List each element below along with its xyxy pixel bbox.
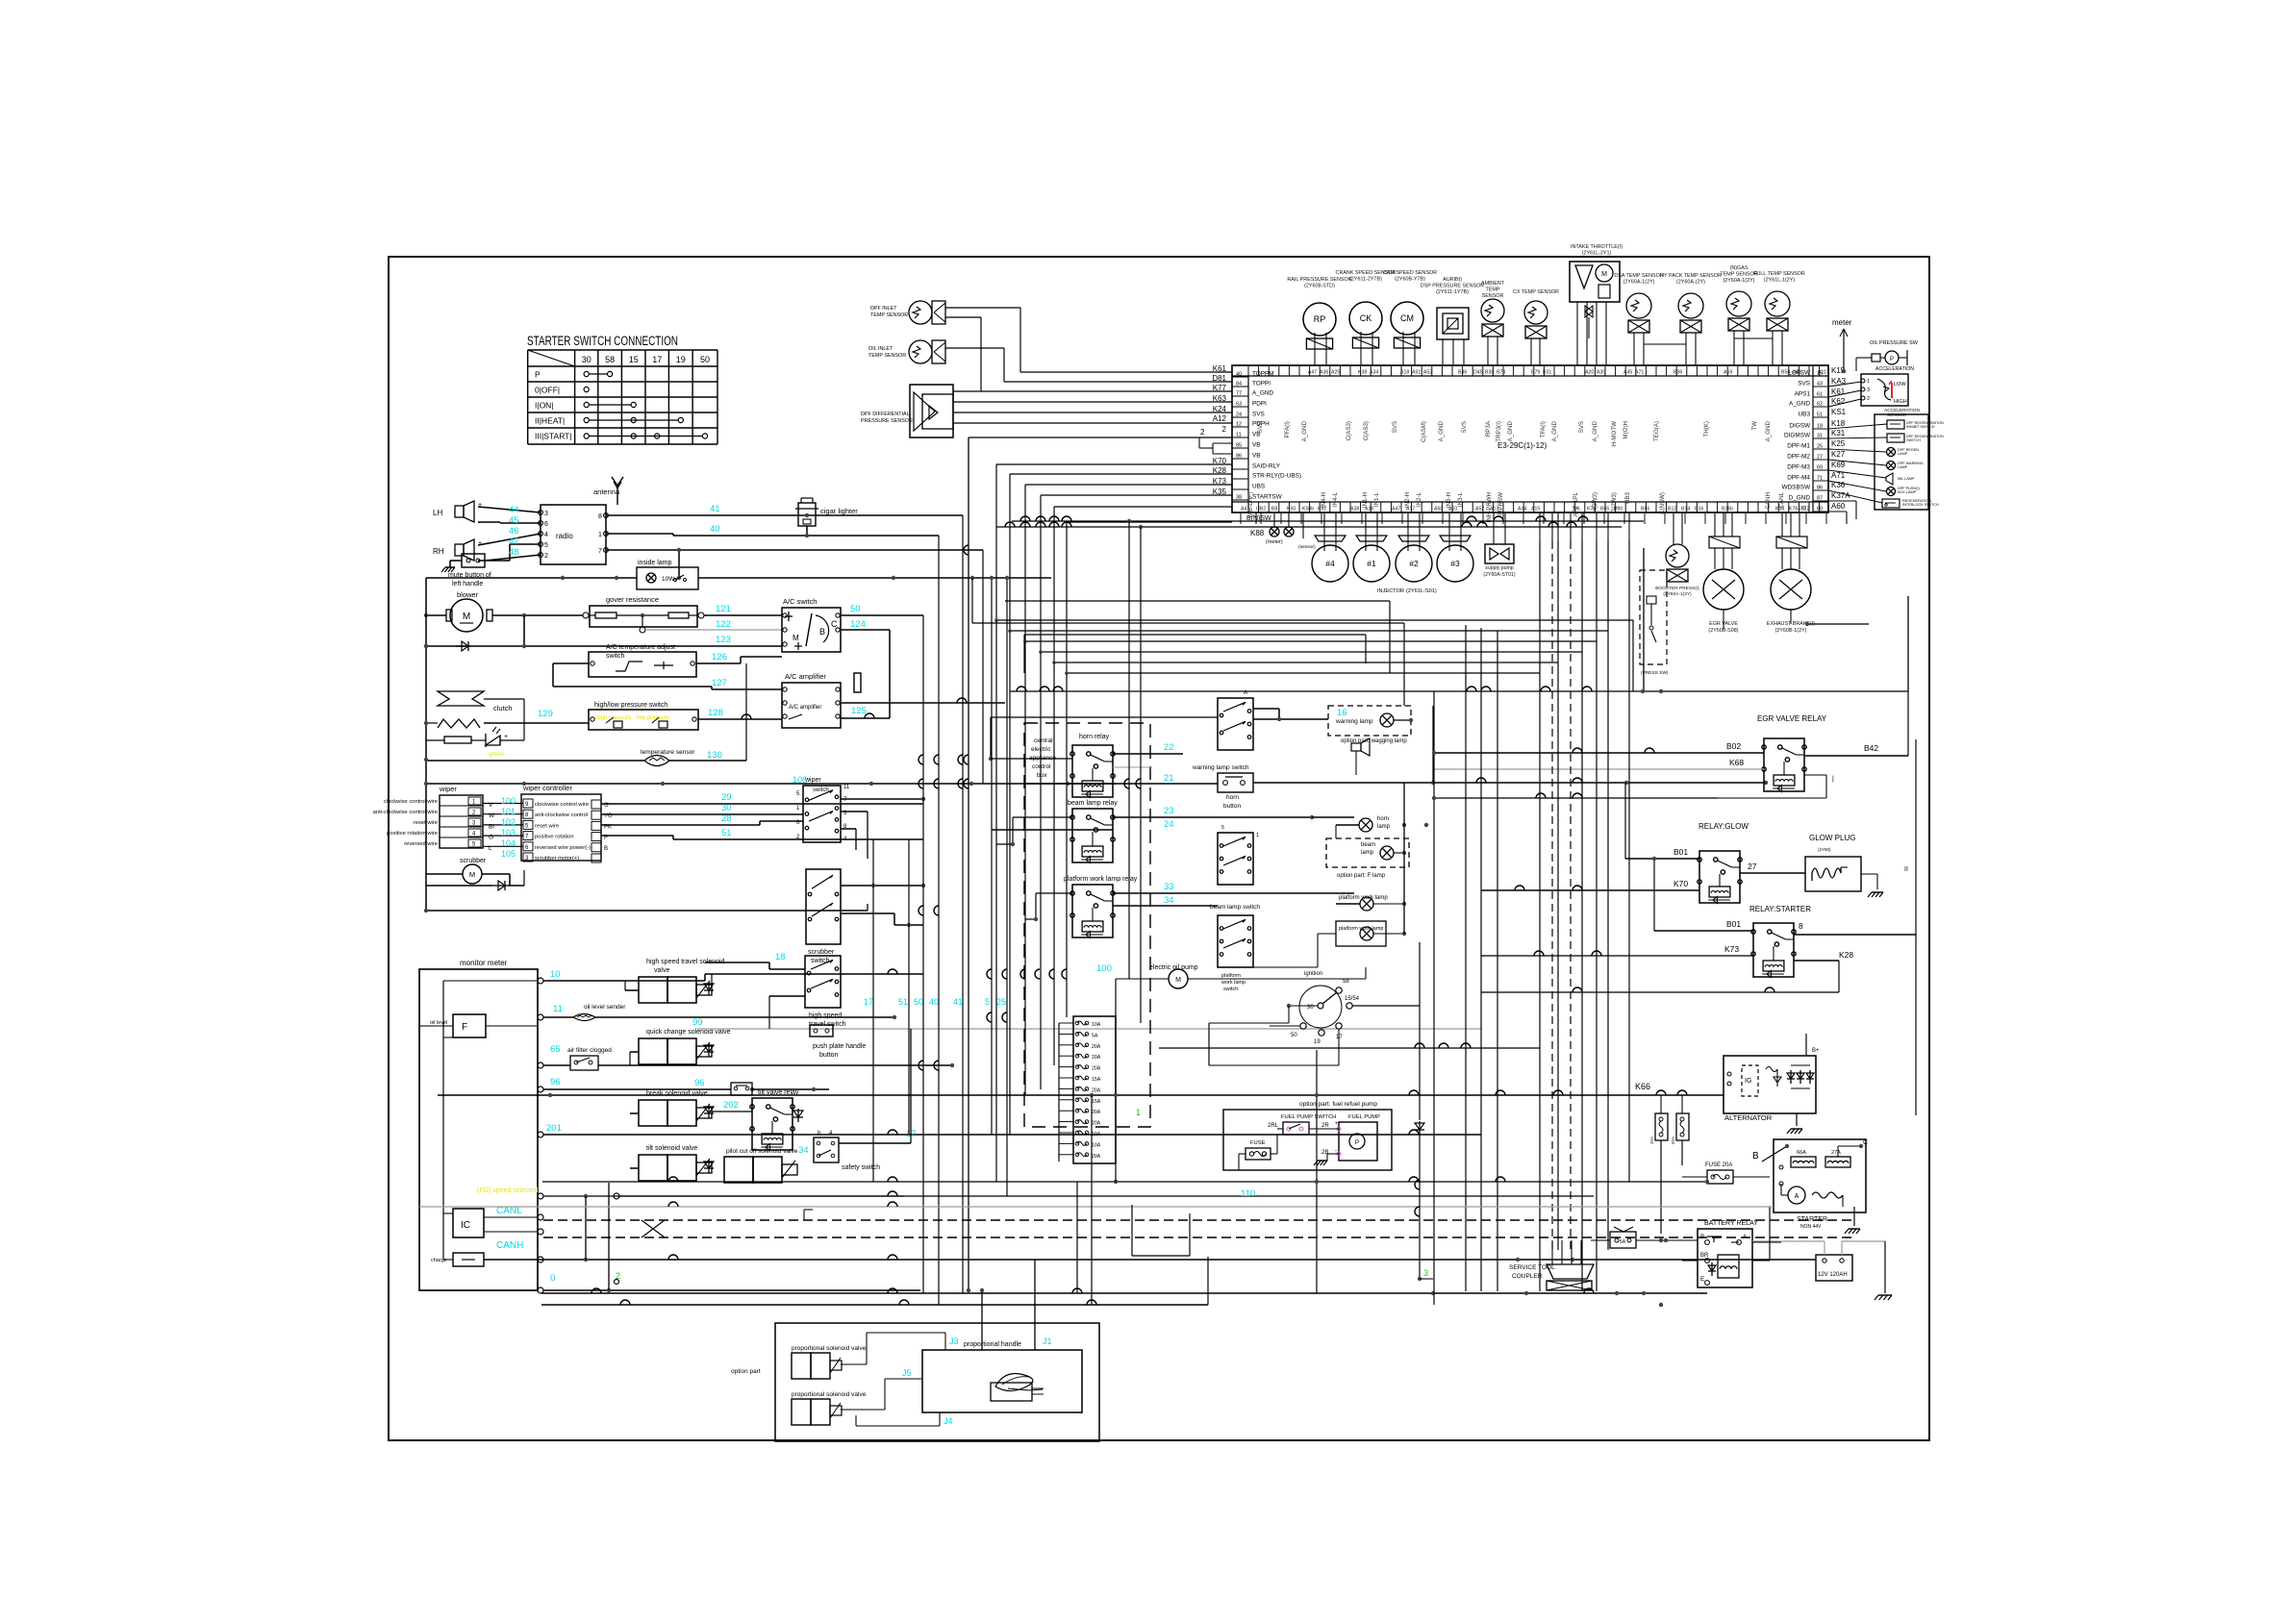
option part inner wires <box>841 1260 1052 1426</box>
wire y947 <box>424 904 868 912</box>
monitor meter box <box>419 959 538 1290</box>
FUEL temp sensor <box>1753 271 1805 365</box>
svg-text:B16b: B16b <box>1722 507 1733 512</box>
svg-text:2: 2 <box>616 1271 620 1281</box>
svg-text:CX TEMP SENSOR: CX TEMP SENSOR <box>1513 289 1559 295</box>
label 0 <box>550 1273 555 1284</box>
ECU left pin labels <box>1212 364 1301 512</box>
svg-text:PFA(I): PFA(I) <box>1284 421 1291 438</box>
svg-text:27: 27 <box>1817 455 1823 461</box>
svg-text:63: 63 <box>1236 402 1242 408</box>
radio pins <box>539 511 609 560</box>
left-center vertical bundle <box>864 515 1009 1305</box>
svg-text:A/C switch: A/C switch <box>783 597 817 606</box>
wire K70 glow <box>1481 879 1699 890</box>
wires K37A A60 <box>1828 501 1856 524</box>
svg-text:box: box <box>1037 772 1047 779</box>
injector #2 <box>1396 512 1432 582</box>
svg-text:B: B <box>1752 1151 1759 1162</box>
svg-text:high/low pressure switch: high/low pressure switch <box>594 702 667 709</box>
LED + resistor <box>426 699 524 758</box>
wire 24 <box>992 819 1218 833</box>
svg-text:K18: K18 <box>1831 419 1846 428</box>
wire canl <box>543 1191 1594 1199</box>
svg-text:A_GND: A_GND <box>1789 401 1810 408</box>
svg-text:50: 50 <box>914 997 923 1007</box>
svg-text:oil level sender: oil level sender <box>584 1004 626 1011</box>
svg-text:option part: fuel refuel pump: option part: fuel refuel pump <box>1299 1101 1377 1108</box>
svg-text:(meter): (meter) <box>1266 539 1283 545</box>
svg-text:M: M <box>469 870 475 879</box>
svg-text:4: 4 <box>544 532 548 538</box>
svg-text:switch: switch <box>606 653 625 660</box>
svg-text:B: B <box>819 627 825 637</box>
svg-text:25: 25 <box>996 997 1006 1007</box>
svg-text:SVS: SVS <box>1392 421 1398 433</box>
CANH label <box>496 1240 523 1251</box>
svg-text:clockwise control wire: clockwise control wire <box>535 802 589 808</box>
bus y815 <box>424 782 1116 786</box>
svg-text:5: 5 <box>985 997 990 1007</box>
solenoid valve: quick change solenoid valve <box>639 1029 731 1064</box>
central electric appliance control box <box>1024 723 1150 1127</box>
svg-text:B01: B01 <box>1726 919 1741 929</box>
wire K66 <box>438 1082 1724 1097</box>
svg-text:lamp: lamp <box>1361 850 1374 856</box>
svg-text:124: 124 <box>850 619 866 630</box>
svg-text:RELAY:GLOW: RELAY:GLOW <box>1699 822 1749 831</box>
svg-text:10A: 10A <box>1092 1022 1101 1028</box>
svg-text:clockwise control wire: clockwise control wire <box>384 799 438 805</box>
svg-text:E: E <box>1700 1276 1705 1283</box>
cross wires y548 <box>996 522 1622 529</box>
svg-text:A_GND: A_GND <box>1252 390 1273 397</box>
svg-text:wiper: wiper <box>439 785 457 793</box>
svg-text:20A: 20A <box>1092 1055 1101 1061</box>
A/C switch <box>782 597 841 652</box>
wire 2 left <box>967 428 1232 1292</box>
svg-text:B12: B12 <box>1668 507 1676 512</box>
svg-text:FUEL PUMP: FUEL PUMP <box>1348 1114 1380 1120</box>
svg-text:H-MOTW: H-MOTW <box>1611 421 1618 446</box>
wire 129 <box>484 709 589 723</box>
svg-text:25: 25 <box>1817 444 1823 450</box>
svg-text:F: F <box>462 1022 467 1033</box>
svg-text:B36: B36 <box>1673 370 1682 376</box>
horn relay <box>1070 734 1115 798</box>
electric oil pump <box>1116 964 1366 988</box>
svg-text:34: 34 <box>798 1145 809 1156</box>
svg-text:DSP PRESSURE SENSOR: DSP PRESSURE SENSOR <box>1421 283 1485 288</box>
svg-text:2: 2 <box>1222 425 1227 434</box>
svg-text:(2Y61L-S01): (2Y61L-S01) <box>1406 588 1437 594</box>
svg-text:A_GND: A_GND <box>1551 420 1558 441</box>
svg-text:(2Y611-1Y7B): (2Y611-1Y7B) <box>1436 289 1469 295</box>
svg-text:K37A: K37A <box>1831 491 1850 500</box>
svg-text:(sensor): (sensor) <box>1298 544 1316 550</box>
svg-text:123: 123 <box>716 635 731 645</box>
svg-text:65: 65 <box>550 1044 561 1055</box>
wire wiper switch right <box>841 797 925 859</box>
svg-text:low pressure: low pressure <box>637 715 670 721</box>
svg-text:beam: beam <box>1361 842 1375 848</box>
svg-text:ALTERNATOR: ALTERNATOR <box>1724 1113 1773 1122</box>
beam lamp relay <box>1068 800 1118 863</box>
svg-text:(FG) speed selected: (FG) speed selected <box>477 1187 539 1194</box>
monitor internal wires <box>443 981 538 1260</box>
meter connector <box>1828 318 1852 371</box>
svg-text:30: 30 <box>721 803 732 813</box>
svg-text:A38: A38 <box>1350 507 1359 512</box>
svg-text:option part: F lamp: option part: F lamp <box>1337 873 1386 879</box>
fuel pump fuse <box>1239 1129 1283 1170</box>
speaker RH <box>433 539 482 565</box>
vertical 1476 <box>1415 942 1433 1281</box>
svg-text:A15: A15 <box>1531 507 1540 512</box>
svg-text:high pressure: high pressure <box>596 715 632 721</box>
svg-text:31: 31 <box>1817 434 1823 439</box>
svg-text:A13: A13 <box>1490 507 1498 512</box>
starter switch connection table <box>528 350 717 444</box>
svg-text:II: II <box>1904 866 1908 873</box>
svg-text:126: 126 <box>712 652 727 662</box>
svg-text:NON 44V: NON 44V <box>1800 1224 1822 1230</box>
svg-text:anti-clockwise control: anti-clockwise control <box>535 812 588 818</box>
svg-text:18: 18 <box>775 952 786 962</box>
DPF lamp3 <box>1828 481 1921 496</box>
svg-text:3: 3 <box>1423 1268 1428 1278</box>
svg-text:tilt solenoid valve: tilt solenoid valve <box>646 1145 697 1152</box>
svg-text:110: 110 <box>1241 1188 1255 1199</box>
high/low pressure switch <box>589 702 698 730</box>
svg-text:option part: wagging lamp: option part: wagging lamp <box>1341 738 1407 744</box>
battery relay wires <box>1659 1177 1781 1307</box>
svg-text:129: 129 <box>538 709 553 719</box>
svg-text:UB3: UB3 <box>1799 412 1811 418</box>
wire relay bottom <box>1434 793 1718 798</box>
EGR valve <box>1703 512 1744 634</box>
ECU top pin band <box>1232 365 1828 376</box>
svg-text:22: 22 <box>1164 742 1174 753</box>
svg-text:A17: A17 <box>1406 507 1415 512</box>
svg-text:positive rotation wire: positive rotation wire <box>387 831 438 837</box>
vertical fuses <box>1649 1095 1689 1234</box>
warning lamp switch <box>1192 764 1253 810</box>
svg-text:INJECTOR: INJECTOR <box>1377 588 1404 594</box>
svg-text:B+: B+ <box>1812 1048 1820 1054</box>
svg-text:86: 86 <box>1817 486 1823 491</box>
oil level sender <box>543 1004 896 1021</box>
svg-text:UB2: UB2 <box>1799 506 1811 512</box>
svg-text:GLOW PLUG: GLOW PLUG <box>1809 834 1855 842</box>
svg-text:51: 51 <box>898 997 908 1007</box>
svg-text:5: 5 <box>1221 825 1224 831</box>
svg-text:DPF-M4: DPF-M4 <box>1787 475 1810 482</box>
DPF operation panel <box>1875 414 1928 510</box>
blower M1 <box>446 590 492 632</box>
svg-text:A_GND: A_GND <box>1507 420 1514 441</box>
svg-text:SVS: SVS <box>1461 421 1468 433</box>
boost temp sensor <box>1655 512 1699 597</box>
svg-text:106: 106 <box>793 775 807 785</box>
wire B42 <box>1718 691 1908 798</box>
svg-text:102: 102 <box>501 817 516 827</box>
svg-text:-: - <box>1335 1148 1337 1154</box>
svg-text:B38: B38 <box>1485 370 1494 376</box>
svg-text:SENSOR: SENSOR <box>1482 293 1504 299</box>
svg-text:K50b: K50b <box>1302 507 1314 512</box>
wire cigar down <box>805 526 809 537</box>
svg-text:8: 8 <box>598 513 602 520</box>
wire bus y601 <box>426 576 1051 580</box>
svg-text:51: 51 <box>721 828 732 838</box>
svg-text:UB2: UB2 <box>1256 507 1266 512</box>
wiper controller <box>483 784 601 862</box>
air filter clogged <box>543 1047 954 1070</box>
svg-text:TH(K): TH(K) <box>1703 421 1710 437</box>
svg-text:switch: switch <box>813 787 829 793</box>
svg-text:|: | <box>1832 776 1834 783</box>
svg-text:air filter clogged: air filter clogged <box>567 1047 612 1054</box>
svg-text:C(AS3): C(AS3) <box>1363 421 1370 440</box>
svg-text:break solenoid valve: break solenoid valve <box>646 1090 708 1097</box>
speaker LH <box>433 501 482 527</box>
ambient temp sensor <box>1481 281 1505 365</box>
label 65 <box>550 1044 561 1055</box>
svg-text:B46: B46 <box>1458 370 1467 376</box>
svg-text:K88: K88 <box>1250 529 1265 537</box>
svg-text:(2Y60A-1(2Y): (2Y60A-1(2Y) <box>1663 591 1692 597</box>
wire 16 <box>1253 708 1347 721</box>
wire K15 top <box>1828 375 1844 377</box>
svg-text:A: A <box>1795 1193 1799 1200</box>
wires ECU to accel <box>1828 382 1861 407</box>
svg-text:KS1: KS1 <box>1831 408 1847 416</box>
svg-text:INTAKE THROTTLE(I): INTAKE THROTTLE(I) <box>1571 244 1623 250</box>
bus y1345 <box>541 1288 1707 1295</box>
wiper connector <box>373 785 483 848</box>
ECU top pin ids <box>1308 370 1826 376</box>
svg-text:A34: A34 <box>1370 370 1378 376</box>
svg-text:20A: 20A <box>1092 1154 1101 1160</box>
svg-text:104: 104 <box>501 838 516 848</box>
svg-text:(AB-LHF): (AB-LHF) <box>1247 492 1254 517</box>
right lamp bus <box>1404 706 1433 934</box>
svg-text:APS1: APS1 <box>1795 391 1811 398</box>
svg-text:(2Y60A-ST01): (2Y60A-ST01) <box>1483 572 1515 578</box>
svg-text:TFA(I): TFA(I) <box>1540 421 1547 437</box>
svg-text:5A: 5A <box>1092 1033 1098 1038</box>
B node <box>1752 1034 1869 1162</box>
fuel gauge F <box>419 1014 486 1037</box>
svg-text:84: 84 <box>1236 382 1242 387</box>
acceleration sensor <box>1861 364 1914 406</box>
svg-text:A36: A36 <box>1320 370 1328 376</box>
warning lamp dashed <box>1328 706 1413 744</box>
svg-text:safety switch: safety switch <box>842 1164 880 1171</box>
ECU top rotated labels <box>1257 420 1772 446</box>
svg-text:INHIBIT SWITCH: INHIBIT SWITCH <box>1906 425 1935 429</box>
svg-text:beam lamp relay: beam lamp relay <box>1068 800 1118 807</box>
svg-text:K25: K25 <box>1831 439 1846 448</box>
svg-text:2RL: 2RL <box>1268 1123 1279 1129</box>
svg-text:45: 45 <box>509 515 519 526</box>
svg-text:B56: B56 <box>1781 370 1790 376</box>
label 201 <box>546 1123 562 1134</box>
DSP pressure sensor <box>1421 277 1485 365</box>
svg-text:85: 85 <box>1236 443 1242 449</box>
svg-text:+: + <box>1335 1121 1339 1127</box>
svg-text:IN2-L: IN2-L <box>1416 491 1422 507</box>
svg-text:WDSBSW: WDSBSW <box>1782 485 1811 491</box>
svg-text:130: 130 <box>707 750 722 761</box>
svg-text:A_GND: A_GND <box>1765 420 1772 441</box>
svg-text:valve: valve <box>654 967 669 974</box>
svg-text:(2Y60A-1(2Y): (2Y60A-1(2Y) <box>1724 278 1755 284</box>
wiper switch <box>793 775 850 842</box>
buzzer <box>1828 470 1915 485</box>
mute button of left handle <box>441 554 541 587</box>
svg-text:A_GND: A_GND <box>1438 420 1445 441</box>
svg-text:8: 8 <box>1799 921 1803 931</box>
svg-text:125: 125 <box>851 706 867 716</box>
svg-text:LAMP: LAMP <box>1898 465 1908 469</box>
svg-text:electric oil pump: electric oil pump <box>1149 964 1198 971</box>
ECU bottom pin ids <box>1241 507 1798 512</box>
svg-text:100: 100 <box>501 796 516 806</box>
svg-text:27A: 27A <box>1831 1150 1841 1156</box>
svg-text:A71: A71 <box>1635 370 1644 376</box>
valve diodes <box>704 982 803 1173</box>
platform work lamp switch sw <box>1218 915 1253 992</box>
svg-text:LAMP: LAMP <box>1898 452 1908 456</box>
wire 99 <box>692 996 1481 1029</box>
battery relay <box>1698 1220 1758 1305</box>
svg-text:0|OFF|: 0|OFF| <box>535 386 560 395</box>
svg-text:46: 46 <box>509 526 519 537</box>
fuse 20A <box>1682 1146 1787 1207</box>
svg-text:B01: B01 <box>1673 847 1688 857</box>
service tool coupler <box>1509 1240 1594 1290</box>
solenoid valve: break solenoid valve <box>639 1090 712 1126</box>
ECU bottom tails <box>1241 512 1826 541</box>
platform work lamp 2 <box>1253 921 1406 967</box>
svg-text:DPF-M3: DPF-M3 <box>1787 464 1810 471</box>
svg-text:5: 5 <box>544 542 548 549</box>
svg-text:100: 100 <box>1096 963 1112 974</box>
wire B02 <box>1434 741 1764 753</box>
wires 121-123 <box>645 604 782 645</box>
svg-text:STARTER SWITCH CONNECTION: STARTER SWITCH CONNECTION <box>527 334 678 348</box>
svg-text:HIGH: HIGH <box>1894 399 1907 405</box>
svg-text:B31: B31 <box>1543 370 1551 376</box>
svg-text:58: 58 <box>605 355 615 364</box>
svg-text:127: 127 <box>712 678 727 688</box>
svg-text:11: 11 <box>1236 433 1242 438</box>
svg-text:2: 2 <box>1867 396 1870 402</box>
svg-text:21: 21 <box>1164 773 1174 784</box>
svg-text:pilot cut off solenoid valve: pilot cut off solenoid valve <box>726 1148 798 1155</box>
svg-text:BOOSTER PRESS(I): BOOSTER PRESS(I) <box>1655 586 1699 591</box>
wire starter bottom <box>1481 961 1839 992</box>
svg-text:TOPPI: TOPPI <box>1252 381 1271 387</box>
injector #1 <box>1353 512 1390 582</box>
svg-text:38: 38 <box>1236 495 1242 501</box>
svg-text:TEMP SENSOR: TEMP SENSOR <box>870 312 908 318</box>
DPF lamp2 <box>1828 460 1924 470</box>
svg-text:platform: platform <box>1221 973 1241 979</box>
label 96 <box>550 1077 561 1087</box>
svg-text:blower: blower <box>457 590 479 599</box>
wire 27 glow <box>1740 862 1805 873</box>
scrubber motor M2 <box>426 858 524 890</box>
svg-text:A39: A39 <box>1597 370 1605 376</box>
relay left feed wires <box>989 717 1218 921</box>
svg-text:FULL TEMP SENSOR: FULL TEMP SENSOR <box>1753 271 1805 277</box>
exhaust brake valve <box>1767 512 1815 634</box>
svg-text:+: + <box>504 734 508 740</box>
clutch <box>426 691 513 728</box>
svg-text:105: 105 <box>501 849 516 859</box>
svg-text:DPF-M2: DPF-M2 <box>1787 454 1810 461</box>
svg-text:APP-1PL: APP-1PL <box>1573 491 1579 516</box>
wire 41 <box>606 504 963 517</box>
svg-text:19: 19 <box>676 355 686 364</box>
starter key switch <box>1209 971 1360 1045</box>
proportional solenoid valve 2 <box>792 1391 867 1425</box>
right edge vertical <box>1868 673 1870 756</box>
wire 10 <box>543 969 923 981</box>
svg-text:HY PACK TEMP SENSOR: HY PACK TEMP SENSOR <box>1660 273 1722 279</box>
svg-text:LOW: LOW <box>1894 382 1906 387</box>
svg-text:A52: A52 <box>1475 507 1484 512</box>
svg-text:oil level: oil level <box>430 1020 447 1026</box>
svg-text:28: 28 <box>721 813 732 824</box>
svg-text:48: 48 <box>509 547 519 558</box>
svg-text:121: 121 <box>716 604 731 614</box>
svg-text:CANH: CANH <box>1765 492 1772 510</box>
svg-text:44: 44 <box>509 505 519 515</box>
label 100c <box>1096 963 1112 974</box>
svg-text:FUSE: FUSE <box>1250 1140 1266 1146</box>
svg-text:A59: A59 <box>1724 370 1732 376</box>
svg-text:beam lamp switch: beam lamp switch <box>1210 904 1260 911</box>
svg-text:D45: D45 <box>1473 370 1483 376</box>
svg-text:20A: 20A <box>1092 1044 1101 1050</box>
svg-text:B66: B66 <box>1641 507 1649 512</box>
beam lamp dashed <box>1326 838 1409 879</box>
svg-text:DSA TEMP SENSOR: DSA TEMP SENSOR <box>1614 273 1663 279</box>
wire 201 <box>543 1130 1481 1135</box>
svg-text:push plate handle: push plate handle <box>813 1043 866 1050</box>
svg-text:3: 3 <box>1867 387 1870 393</box>
svg-text:A51: A51 <box>1412 370 1421 376</box>
svg-text:(2Y611-2Y7B): (2Y611-2Y7B) <box>1349 276 1382 282</box>
A/C amplifier <box>782 672 841 728</box>
svg-text:AURIBI): AURIBI) <box>1443 277 1462 283</box>
svg-text:66A: 66A <box>1797 1150 1806 1156</box>
platform work lamp relay <box>1064 876 1138 938</box>
svg-text:inside lamp: inside lamp <box>638 560 672 566</box>
svg-text:62: 62 <box>1817 402 1823 408</box>
svg-text:STARTER: STARTER <box>1797 1216 1827 1223</box>
svg-text:B: B <box>1700 1234 1704 1240</box>
svg-text:monitor meter: monitor meter <box>460 959 508 967</box>
injector #3 <box>1437 512 1473 582</box>
svg-text:17: 17 <box>864 997 873 1007</box>
svg-text:platform work lamp relay: platform work lamp relay <box>1064 876 1138 883</box>
svg-text:7: 7 <box>598 548 602 555</box>
